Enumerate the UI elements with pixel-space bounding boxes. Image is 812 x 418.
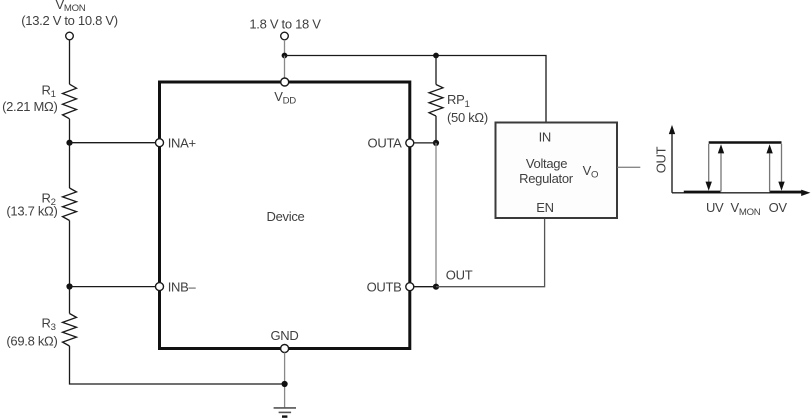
graph rising transition at UV [718,144,724,191]
svg-text:GND: GND [271,328,299,343]
wire R2 to node B [69,221,71,287]
svg-text:(50 kΩ): (50 kΩ) [447,110,488,125]
svg-text:IN: IN [539,130,551,145]
wire OUT node to regulator EN [436,219,545,287]
pin INA+ [156,139,164,147]
wire OUTA pin to junction [414,142,436,144]
junction node A (R1/R2/INA+) [66,140,72,146]
wire R1 to node A [69,119,71,143]
graph pulse low level left [684,191,721,193]
wire GND pin to ground [284,353,286,408]
junction supply/VDD [282,53,288,59]
wire node A to R2 [69,143,71,188]
svg-text:Device: Device [267,209,305,224]
svg-text:OUTA: OUTA [368,135,403,150]
wire junction to RP1 [435,56,437,85]
voltage regulator U2 box [496,123,618,219]
resistor R2 [63,188,77,221]
resistor RP1 [429,85,443,117]
pin INB- [156,283,164,291]
graph x-axis VMON [672,190,810,196]
wire node A to INA+ [70,142,156,144]
graph pulse high level [709,141,782,144]
svg-text:OUTB: OUTB [367,279,402,294]
svg-text:(2.21 MΩ): (2.21 MΩ) [2,99,57,114]
junction supply/RP1 [433,53,439,59]
svg-text:R1: R1 [42,83,56,101]
resistor R3 [63,314,77,347]
svg-text:R3: R3 [42,316,56,334]
svg-text:VMON: VMON [731,200,761,218]
graph falling transition at UV [706,144,712,191]
ground [274,408,296,417]
wire junction to VDD pin [284,56,286,81]
resistor R1 [63,84,77,119]
wire supply terminal to junction [284,40,286,56]
junction OUTB/OUT [433,284,439,290]
svg-text:INB–: INB– [168,279,197,294]
svg-text:OUT: OUT [654,146,669,173]
graph y-axis OUT [669,125,675,193]
terminal supply 1.8V [281,32,289,40]
pin GND [281,345,289,353]
svg-text:UV: UV [706,200,724,215]
svg-text:Regulator: Regulator [519,171,574,186]
wire OUTB pin to junction [414,286,436,288]
junction OUTA/RP1 [433,140,439,146]
wire VMON terminal to R1 [69,40,71,84]
svg-text:EN: EN [536,200,553,215]
svg-text:(69.8 kΩ): (69.8 kΩ) [6,334,57,349]
svg-text:RP1: RP1 [447,92,470,110]
junction node B (R2/R3/INB-) [66,283,72,289]
graph rising transition at OV [766,144,772,191]
pin OUTA [406,139,414,147]
svg-text:(13.2 V to 10.8 V): (13.2 V to 10.8 V) [21,13,118,28]
wire node B to INB- [70,286,156,288]
svg-text:1.8 V to 18 V: 1.8 V to 18 V [249,17,321,32]
svg-text:(13.7 kΩ): (13.7 kΩ) [6,204,57,219]
device U1 box [160,82,410,349]
pin OUTB [406,283,414,291]
wire VO output stub [618,166,641,168]
wire OUTA junction to OUTB junction [435,143,437,287]
svg-text:OUT: OUT [446,267,473,282]
wire node B to R3 [69,287,71,314]
svg-text:Voltage: Voltage [526,156,567,171]
terminal VMON [66,32,74,40]
svg-text:OV: OV [769,200,788,215]
graph pulse low level right [770,191,804,193]
wire R3 to ground junction [70,346,282,384]
junction ground node [282,381,288,387]
graph falling transition at OV [778,144,784,191]
wire RP1 to node OUTA [435,116,437,143]
wire supply rail to regulator IN [285,56,547,122]
svg-text:INA+: INA+ [168,135,196,150]
pin VDD [281,78,289,86]
